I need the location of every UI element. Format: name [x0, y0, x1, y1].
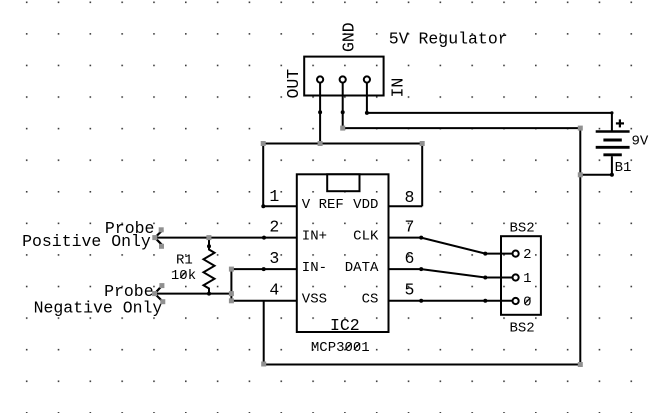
svg-text:IC2: IC2	[330, 316, 360, 335]
svg-text:6: 6	[404, 249, 414, 268]
wire GND to right rail	[343, 127, 581, 129]
wire pin4 drop to ground rail	[263, 301, 265, 365]
svg-text:5: 5	[404, 281, 414, 300]
gray handle bottom rail left	[261, 362, 266, 367]
BS2 pin 1 circle	[513, 274, 519, 280]
gray handle resistor tap	[206, 235, 211, 240]
junction dot pin6 wire	[419, 267, 423, 271]
gray handle left mid	[229, 291, 234, 296]
gray handle bus left	[261, 141, 266, 146]
junction dot resistor lead	[207, 244, 211, 248]
junction dot resistor bottom	[207, 292, 211, 296]
wire pin5 to BS2 pin0	[389, 300, 513, 302]
wire regulator GND down	[342, 83, 344, 129]
BS2 connector box	[501, 236, 541, 315]
junction dot battery corner	[610, 111, 613, 114]
battery plus sign	[616, 122, 624, 124]
svg-text:B1: B1	[615, 160, 632, 176]
battery B1 plate short bottom	[603, 153, 621, 156]
wire bottom rail	[264, 364, 581, 366]
svg-text:DATA: DATA	[345, 260, 379, 276]
wire pin2 to probe positive	[155, 237, 297, 239]
wire pin7 to BS2 pin2	[389, 238, 513, 254]
5V regulator box	[304, 57, 383, 96]
svg-text:8: 8	[404, 188, 414, 207]
svg-text:2: 2	[269, 218, 279, 237]
regulator pin OUT circle	[317, 76, 323, 82]
junction dot OUT lead	[318, 110, 322, 114]
wire left vertical pin3-pin4	[230, 269, 232, 301]
battery B1 plate short	[603, 139, 621, 142]
junction dot pin7 diag end	[483, 252, 487, 256]
svg-text:10k: 10k	[171, 268, 196, 284]
arrow probe positive	[155, 230, 163, 238]
junction dot pin6 diag end	[483, 276, 487, 280]
svg-text:1: 1	[523, 271, 531, 287]
svg-text:OUT: OUT	[284, 69, 303, 99]
svg-text:BS2: BS2	[510, 320, 535, 336]
svg-text:VSS: VSS	[302, 292, 327, 308]
junction dot pin5 wire b	[483, 299, 487, 303]
junction dot pin1 end	[261, 204, 265, 208]
battery bottom lead	[580, 156, 612, 175]
wire pin6 to BS2 pin1	[389, 269, 513, 277]
svg-text:9V: 9V	[632, 134, 649, 150]
battery B1 plate long lower	[596, 146, 630, 149]
wire 5V bus left drop to pin1	[262, 144, 264, 207]
BS2 pin 2 circle	[513, 251, 519, 257]
zero slashes MCP3001	[346, 343, 352, 349]
gray handle arrow1 top	[159, 227, 164, 232]
svg-text:Negative Only: Negative Only	[34, 299, 163, 318]
wire regulator OUT down	[319, 83, 321, 144]
wire regulator IN down	[366, 83, 368, 113]
gray handle left corner bottom	[229, 298, 234, 303]
wire pin3 stub	[231, 268, 296, 270]
gray handle right rail top	[578, 126, 583, 131]
regulator pin GND circle	[340, 76, 346, 82]
svg-text:1: 1	[269, 187, 279, 206]
svg-text:5V Regulator: 5V Regulator	[389, 29, 508, 48]
junction dot IN corner	[365, 111, 369, 115]
svg-text:IN+: IN+	[302, 228, 327, 244]
zero slash BS2 pin 0	[525, 298, 531, 304]
svg-text:IN-: IN-	[302, 260, 327, 276]
resistor R1	[204, 238, 215, 294]
svg-text:CLK: CLK	[353, 228, 379, 244]
arrow probe negative	[155, 286, 162, 294]
wire probe negative	[155, 293, 232, 295]
svg-text:MCP3001: MCP3001	[311, 340, 370, 356]
zero slash 10k	[180, 271, 186, 277]
svg-text:CS: CS	[362, 292, 379, 308]
svg-text:0: 0	[523, 294, 531, 310]
gray handle right rail battery	[578, 172, 583, 177]
IC2 MCP3001 body	[297, 174, 389, 332]
svg-text:3: 3	[269, 249, 279, 268]
svg-text:BS2: BS2	[510, 221, 535, 237]
wire pin4 stub	[231, 300, 296, 302]
gray handle arrow2 tip	[152, 291, 157, 296]
regulator pin IN circle	[364, 76, 370, 82]
wire IN to battery plus	[367, 113, 612, 131]
svg-text:Positive Only: Positive Only	[22, 232, 151, 251]
junction dot battery bottom	[610, 173, 614, 177]
svg-text:IN: IN	[389, 78, 408, 98]
gray handle OUT at bus	[318, 141, 323, 146]
junction dot pin2 wire	[262, 236, 266, 240]
battery B1 plate long top	[596, 130, 630, 132]
IC2 notch	[327, 174, 359, 191]
gray handle bus right	[420, 141, 425, 146]
svg-text:VDD: VDD	[353, 197, 378, 213]
svg-text:R1: R1	[176, 252, 193, 268]
wire pin8 stub	[389, 205, 423, 207]
gray handle GND corner	[340, 126, 345, 131]
gray handle arrow2 top	[159, 283, 164, 288]
wire pin1 stub	[263, 205, 297, 207]
gray handle arrow2 bottom	[160, 299, 165, 304]
BS2 pin 0 circle	[513, 298, 519, 304]
svg-text:7: 7	[404, 218, 414, 237]
gray handle arrow1 bottom	[159, 244, 164, 249]
wire 5V bus horizontal	[263, 143, 422, 145]
svg-text:V REF: V REF	[302, 197, 344, 213]
gray handle arrow1 tip	[152, 235, 157, 240]
junction dot GND lead	[341, 110, 345, 114]
wire 5V bus right drop to pin8	[421, 144, 423, 207]
svg-text:2: 2	[523, 247, 531, 263]
svg-text:GND: GND	[340, 22, 359, 52]
svg-text:4: 4	[269, 281, 279, 300]
junction dot pin7 wire	[419, 236, 423, 240]
junction dot pin3 wire	[262, 267, 266, 271]
gray handle bottom rail right	[578, 362, 583, 367]
junction dot pin5 wire a	[419, 299, 423, 303]
gray handle left corner top	[229, 267, 234, 272]
wire right rail	[579, 128, 581, 364]
